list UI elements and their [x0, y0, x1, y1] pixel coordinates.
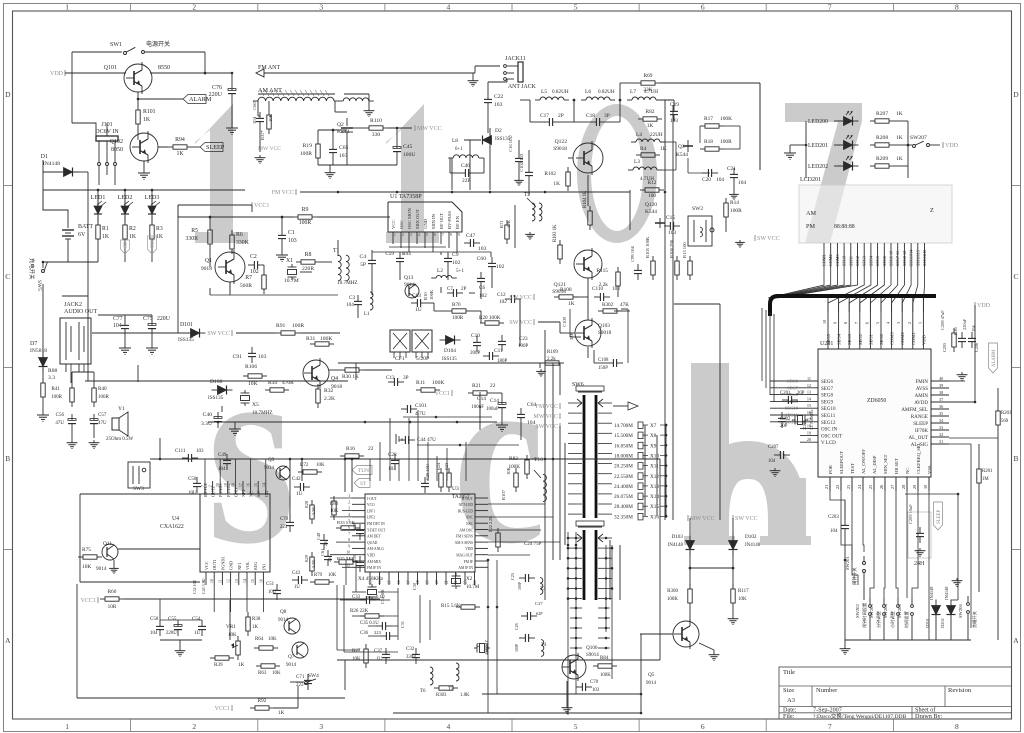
svg-text:19: 19: [807, 430, 811, 435]
svg-text:R69: R69: [644, 73, 653, 79]
svg-text:38: 38: [939, 390, 943, 395]
svg-text:R9: R9: [302, 207, 309, 213]
svg-text:1U: 1U: [415, 307, 422, 313]
svg-text:X5: X5: [252, 402, 259, 408]
svg-text:3: 3: [896, 322, 901, 324]
svg-text:18.000M: 18.000M: [614, 453, 633, 459]
svg-text:33: 33: [939, 425, 943, 430]
svg-text:1: 1: [394, 233, 396, 237]
svg-text:闹钟时间设置: 闹钟时间设置: [861, 603, 868, 628]
svg-text:D104: D104: [444, 348, 456, 354]
svg-text:SEG7: SEG7: [821, 387, 833, 392]
svg-text:L1: L1: [364, 312, 370, 317]
svg-text:SLEEP: SLEEP: [206, 144, 225, 151]
svg-text:R23: R23: [444, 462, 449, 470]
svg-text:VCC1: VCC1: [81, 598, 96, 604]
svg-text:AM OSC: AM OSC: [459, 528, 473, 532]
svg-text:R80: R80: [330, 502, 339, 507]
svg-text:C49: C49: [218, 453, 227, 458]
svg-text:SW4: SW4: [308, 673, 319, 679]
svg-text:28: 28: [901, 485, 906, 489]
svg-text:10.7M: 10.7M: [466, 585, 480, 590]
svg-text:C16 10U: C16 10U: [508, 135, 513, 152]
svg-text:3: 3: [319, 722, 323, 731]
svg-text:5+1: 5+1: [456, 269, 464, 274]
svg-text:1: 1: [348, 494, 350, 498]
svg-text:VCC1: VCC1: [215, 706, 230, 712]
svg-text:1K: 1K: [896, 156, 903, 162]
svg-text:L3: L3: [634, 159, 640, 165]
svg-text:10K: 10K: [272, 671, 281, 676]
svg-text:R28: R28: [304, 501, 309, 508]
svg-text:20: 20: [807, 437, 811, 442]
svg-text:R103 1K: R103 1K: [553, 224, 558, 242]
svg-text:88:88:88: 88:88:88: [834, 224, 855, 230]
svg-text:R94: R94: [175, 137, 185, 143]
svg-text:9: 9: [833, 322, 838, 324]
svg-text:C31: C31: [400, 621, 405, 628]
svg-text:C21: C21: [727, 166, 736, 172]
svg-text:3P: 3P: [403, 375, 409, 381]
svg-text:100K: 100K: [432, 380, 444, 386]
svg-text:1K: 1K: [896, 111, 903, 117]
svg-text:1U: 1U: [376, 657, 382, 662]
svg-text:19: 19: [224, 483, 228, 487]
svg-text:AMIN: AMIN: [915, 394, 929, 399]
svg-text:22: 22: [368, 446, 374, 452]
svg-text:22UH: 22UH: [650, 132, 663, 138]
svg-text:T1: T1: [333, 248, 340, 254]
svg-text:C10: C10: [471, 333, 480, 339]
svg-text:FM IF IN: FM IF IN: [367, 566, 381, 570]
svg-text:R102: R102: [544, 171, 556, 177]
svg-text:6: 6: [701, 722, 705, 731]
svg-text:R40: R40: [98, 386, 107, 392]
svg-text:SEG0: SEG0: [879, 333, 884, 345]
svg-text:ANT JACK: ANT JACK: [508, 84, 537, 90]
svg-text:SEG1216: SEG1216: [922, 250, 927, 266]
svg-text:充电开关: 充电开关: [28, 258, 36, 280]
svg-text:C58: C58: [150, 617, 159, 622]
svg-text:TEST: TEST: [850, 463, 855, 474]
svg-text:1M: 1M: [982, 477, 989, 482]
svg-text:MIX OUT: MIX OUT: [415, 209, 420, 229]
svg-text:OSC IN: OSC IN: [821, 428, 838, 433]
svg-text:7: 7: [201, 485, 205, 487]
svg-text:C2: C2: [250, 254, 257, 260]
svg-text:Q122: Q122: [555, 139, 568, 145]
svg-text:D: D: [1013, 90, 1019, 99]
svg-text:R41: R41: [51, 386, 60, 392]
svg-text:SW203: SW203: [869, 604, 874, 618]
svg-text:32: 32: [939, 432, 943, 437]
svg-text:TUN: TUN: [358, 468, 369, 474]
svg-text:6: 6: [701, 2, 705, 11]
svg-text:ST: ST: [360, 481, 367, 487]
svg-text:14: 14: [243, 579, 247, 583]
svg-text:V LCD: V LCD: [821, 441, 836, 446]
svg-text:SW: SW: [256, 491, 261, 497]
svg-text:C70: C70: [280, 517, 289, 522]
svg-text:24H: 24H: [914, 561, 925, 567]
svg-text:SW6: SW6: [572, 382, 584, 388]
svg-text:R110: R110: [370, 118, 382, 124]
svg-text:ZD6050: ZD6050: [867, 398, 886, 404]
svg-text:10K: 10K: [506, 466, 511, 475]
svg-text:22P: 22P: [462, 178, 470, 184]
svg-text:SEG11: SEG11: [821, 414, 836, 419]
svg-text:103: 103: [668, 230, 676, 236]
svg-text:102: 102: [499, 299, 507, 305]
svg-text:VCO: VCO: [367, 503, 375, 507]
svg-text:SEG9: SEG9: [821, 400, 833, 405]
svg-text:103: 103: [592, 688, 600, 693]
svg-text:Revision: Revision: [948, 687, 972, 694]
svg-text:ALARM: ALARM: [992, 349, 997, 367]
svg-text:1: 1: [917, 322, 922, 324]
svg-text:COM1: COM1: [911, 332, 916, 345]
svg-text:IN4148: IN4148: [929, 586, 934, 600]
svg-text:FMIN: FMIN: [915, 380, 928, 385]
svg-text:R20 100K: R20 100K: [479, 315, 501, 321]
svg-text:C: C: [1013, 272, 1018, 281]
svg-text:U1 TA7358P: U1 TA7358P: [390, 194, 422, 200]
svg-text:S9014: S9014: [586, 653, 599, 658]
svg-text:LED200: LED200: [808, 119, 828, 125]
svg-text:A3: A3: [787, 697, 795, 704]
svg-text:LPF1: LPF1: [367, 509, 375, 513]
svg-text:OSC OUT: OSC OUT: [821, 434, 842, 439]
svg-text:7: 7: [348, 532, 350, 536]
svg-text:VDD: VDD: [921, 334, 926, 345]
svg-text:9018: 9018: [201, 266, 212, 272]
svg-text:SEG5: SEG5: [826, 333, 831, 345]
svg-text:R82: R82: [646, 109, 655, 115]
svg-text:OSC MON: OSC MON: [407, 208, 412, 229]
svg-text:23: 23: [846, 485, 851, 489]
svg-text:C109: C109: [562, 316, 567, 327]
svg-text:C4: C4: [359, 254, 366, 260]
svg-text:VCC1: VCC1: [254, 203, 269, 209]
svg-text:8: 8: [955, 2, 959, 11]
svg-text:BUS-LED: BUS-LED: [458, 509, 474, 513]
svg-text:K544: K544: [645, 209, 657, 215]
svg-text:T6: T6: [420, 689, 426, 694]
svg-text:T2: T2: [524, 192, 530, 198]
svg-text:D102: D102: [745, 534, 757, 540]
svg-text:IN4148: IN4148: [43, 161, 60, 167]
svg-text:IN1: IN1: [261, 563, 266, 570]
svg-text:103: 103: [258, 354, 267, 360]
svg-text:10: 10: [346, 551, 350, 555]
svg-text:BY-PASS: BY-PASS: [447, 211, 452, 229]
svg-text:100K: 100K: [600, 673, 611, 678]
svg-text:AM-ANLG: AM-ANLG: [367, 547, 384, 551]
svg-text:9014: 9014: [286, 663, 297, 668]
svg-text:RF OUT: RF OUT: [439, 213, 444, 229]
svg-text:104: 104: [738, 180, 746, 186]
svg-text:LPF2: LPF2: [367, 516, 375, 520]
svg-text:5/20P: 5/20P: [416, 356, 429, 362]
svg-text:C60: C60: [477, 256, 487, 262]
svg-text:1.8K: 1.8K: [460, 693, 470, 698]
svg-text:10K: 10K: [738, 597, 747, 602]
svg-text:K544: K544: [676, 152, 688, 158]
svg-text:103: 103: [288, 238, 297, 244]
svg-text:2.2K: 2.2K: [324, 396, 335, 402]
svg-text:C209 10uF: C209 10uF: [908, 504, 913, 524]
svg-text:10K: 10K: [82, 564, 91, 570]
svg-text:C50: C50: [188, 477, 197, 482]
svg-text:SW2: SW2: [692, 206, 703, 212]
svg-text:8: 8: [843, 322, 848, 324]
svg-text:R8: R8: [305, 252, 312, 258]
svg-text:220R: 220R: [302, 266, 314, 272]
svg-text:C15: C15: [666, 215, 675, 221]
svg-text:220uF: 220uF: [962, 318, 967, 330]
svg-text:SW202: SW202: [855, 604, 860, 618]
svg-text:R13 100: R13 100: [682, 242, 687, 258]
svg-text:R5: R5: [191, 228, 198, 234]
svg-text:R18: R18: [704, 139, 713, 145]
svg-text:8: 8: [348, 538, 350, 542]
svg-text:ISS135: ISS135: [442, 357, 457, 362]
svg-text:COM3: COM3: [835, 254, 840, 266]
svg-text:100R: 100R: [300, 151, 312, 157]
svg-text:7: 7: [442, 233, 444, 237]
svg-text:SW VCC: SW VCC: [757, 236, 780, 242]
svg-text:100K: 100K: [667, 597, 679, 602]
svg-text:32.350M: 32.350M: [614, 514, 633, 520]
svg-text:COM3: COM3: [890, 332, 895, 345]
svg-text:分钟调整: 分钟调整: [875, 610, 882, 628]
svg-text:X1: X1: [286, 258, 293, 264]
svg-text:VOL: VOL: [245, 561, 250, 570]
svg-text:1K: 1K: [176, 151, 184, 157]
svg-text:AMFM_SEL: AMFM_SEL: [901, 408, 928, 413]
svg-text:25Ohm 0.5W: 25Ohm 0.5W: [106, 437, 134, 442]
svg-text:C24 75P: C24 75P: [524, 542, 542, 547]
svg-text:RF EN: RF EN: [455, 215, 460, 229]
svg-text:IN4148: IN4148: [944, 586, 949, 600]
svg-text:MIN_SET: MIN_SET: [883, 454, 888, 474]
svg-text:C44 47U: C44 47U: [417, 437, 436, 443]
svg-text:SEG8: SEG8: [821, 394, 833, 399]
svg-text:R107: R107: [501, 489, 506, 500]
svg-text:2P: 2P: [558, 113, 564, 119]
svg-text:1: 1: [65, 2, 69, 11]
svg-text:11: 11: [807, 376, 811, 381]
svg-text:103: 103: [612, 286, 620, 292]
svg-text:Q106: Q106: [586, 645, 598, 651]
svg-text:R3: R3: [156, 226, 163, 232]
svg-text:X2: X2: [466, 576, 473, 582]
svg-text:C91: C91: [233, 354, 243, 360]
svg-text:SEG6: SEG6: [882, 256, 887, 266]
svg-text:C45 3.3U: C45 3.3U: [201, 578, 206, 594]
svg-text:L8: L8: [452, 138, 458, 144]
svg-text:ST: ST: [123, 241, 129, 248]
svg-text:Q2: Q2: [337, 122, 344, 128]
svg-text:R-OUT: R-OUT: [462, 497, 474, 501]
svg-text:R108: R108: [560, 287, 572, 293]
svg-text:IF70K: IF70K: [915, 429, 928, 434]
svg-text:104: 104: [113, 323, 122, 329]
svg-text:C64: C64: [527, 402, 537, 408]
svg-text:AM IF IN: AM IF IN: [458, 566, 473, 570]
svg-text:SW3: SW3: [133, 486, 144, 492]
svg-text:R109: R109: [547, 350, 558, 355]
svg-text:T-DET OUT: T-DET OUT: [367, 528, 386, 532]
svg-text:C19: C19: [670, 102, 679, 108]
svg-text:C78: C78: [590, 680, 599, 685]
svg-text:D201: D201: [925, 618, 930, 628]
svg-text:15: 15: [388, 580, 392, 584]
svg-text:1K: 1K: [143, 117, 151, 123]
svg-text:100P: 100P: [514, 643, 519, 652]
svg-text:R79: R79: [314, 573, 323, 578]
svg-text:31: 31: [939, 439, 943, 444]
svg-text:27: 27: [890, 485, 895, 489]
svg-text:R2: R2: [129, 226, 136, 232]
svg-text:SEG0: SEG0: [842, 256, 847, 266]
svg-text:Q9: Q9: [268, 457, 275, 463]
svg-text:SEG8 12: SEG8 12: [902, 251, 907, 266]
svg-text:闹钟开关: 闹钟开关: [851, 567, 858, 585]
svg-text:SW205: SW205: [897, 604, 902, 618]
svg-text:C45: C45: [403, 144, 413, 150]
svg-text:R11: R11: [416, 380, 425, 386]
svg-text:1K: 1K: [660, 146, 667, 152]
svg-text:4.7U: 4.7U: [415, 411, 426, 417]
svg-text:SW201: SW201: [845, 556, 850, 570]
svg-text:26: 26: [879, 485, 884, 489]
svg-text:D2: D2: [495, 128, 502, 134]
svg-text:0.82UH: 0.82UH: [598, 89, 615, 95]
svg-text:R10: R10: [423, 292, 428, 300]
svg-text:R21: R21: [472, 383, 481, 389]
svg-text:T10: T10: [534, 457, 543, 463]
svg-text:R84: R84: [600, 656, 609, 661]
svg-text:R38: R38: [252, 617, 261, 622]
svg-text:B: B: [1013, 454, 1018, 463]
svg-text:D101: D101: [180, 322, 193, 328]
svg-text:C12: C12: [497, 292, 506, 298]
svg-text:CF1: CF1: [395, 356, 405, 362]
svg-text:C71: C71: [296, 675, 305, 680]
svg-text:R72: R72: [300, 463, 309, 468]
svg-text:1U: 1U: [194, 631, 201, 636]
svg-text:D1: D1: [41, 154, 48, 160]
svg-text:104: 104: [716, 177, 724, 183]
svg-text:R208: R208: [876, 135, 888, 141]
svg-text:X14: X14: [650, 494, 659, 500]
svg-text:C30: C30: [412, 583, 417, 590]
svg-text:C46: C46: [461, 163, 470, 169]
svg-text:R29: R29: [304, 555, 309, 562]
svg-text:MW VCC: MW VCC: [690, 516, 715, 522]
svg-text:JACK11: JACK11: [505, 56, 526, 62]
svg-text:20: 20: [435, 580, 439, 584]
svg-text:SW VCC: SW VCC: [509, 295, 532, 301]
svg-text:X13: X13: [650, 484, 659, 490]
svg-text:Y1: Y1: [118, 406, 125, 412]
svg-text:C108: C108: [598, 358, 609, 363]
svg-text:R101: R101: [143, 109, 156, 115]
svg-text:AM-MIX: AM-MIX: [367, 560, 381, 564]
svg-text:104: 104: [252, 116, 257, 124]
svg-text:A: A: [5, 636, 11, 645]
svg-text:R203: R203: [1001, 411, 1012, 416]
svg-text:ISS135: ISS135: [208, 395, 224, 401]
svg-text:10K: 10K: [352, 657, 361, 662]
svg-text:C75: C75: [143, 316, 153, 322]
svg-text:47U: 47U: [55, 421, 64, 426]
svg-text:5P: 5P: [360, 262, 366, 268]
svg-text:L6: L6: [585, 89, 591, 95]
svg-text:SEG4: SEG4: [868, 255, 873, 266]
svg-text:330R: 330R: [185, 236, 198, 242]
svg-text:22.550M: 22.550M: [614, 474, 633, 480]
svg-text:3: 3: [410, 233, 412, 237]
svg-text:150P: 150P: [598, 366, 608, 371]
svg-text:R32: R32: [324, 388, 334, 394]
svg-text:NSC: NSC: [466, 522, 474, 526]
svg-text:R12: R12: [648, 180, 657, 186]
svg-text:SLEEP: SLEEP: [937, 510, 942, 524]
svg-text:103: 103: [196, 449, 204, 454]
svg-text:R92: R92: [258, 698, 267, 704]
svg-text:100R: 100R: [452, 315, 464, 321]
svg-text:BATT: BATT: [78, 224, 93, 230]
svg-text:7-Sep-2007: 7-Sep-2007: [813, 706, 842, 713]
svg-text:C201: C201: [780, 391, 791, 396]
svg-text:10.7MHZ: 10.7MHZ: [252, 410, 273, 416]
svg-text:560R: 560R: [240, 283, 252, 289]
svg-text:1: 1: [65, 722, 69, 731]
svg-text:FM VCC: FM VCC: [272, 190, 294, 196]
svg-text:16.850M: 16.850M: [614, 443, 633, 449]
svg-text:SEG1: SEG1: [848, 256, 853, 266]
svg-text:10K: 10K: [328, 573, 337, 578]
svg-text:1K: 1K: [129, 234, 137, 240]
svg-text:R1: R1: [102, 226, 109, 232]
svg-text:C99 104: C99 104: [630, 246, 635, 262]
svg-text:NF1: NF1: [237, 563, 242, 570]
svg-text:C25: C25: [510, 573, 515, 580]
svg-text:1K: 1K: [553, 181, 560, 187]
svg-text:C26: C26: [514, 623, 519, 630]
svg-text:C205: C205: [942, 343, 947, 352]
svg-text:Title: Title: [783, 669, 795, 676]
svg-text:R22 2.2K: R22 2.2K: [488, 516, 493, 532]
svg-text:17: 17: [407, 580, 411, 584]
svg-text:Q3: Q3: [678, 144, 685, 150]
svg-text:Z: Z: [930, 207, 934, 214]
svg-text:电源开关: 电源开关: [146, 40, 170, 48]
svg-text:2: 2: [348, 500, 350, 504]
svg-text:SEG2: SEG2: [855, 256, 860, 266]
svg-text:103: 103: [339, 153, 348, 159]
svg-text:R16: R16: [346, 446, 355, 452]
svg-text:100R: 100R: [299, 220, 312, 226]
svg-text:R106: R106: [245, 364, 257, 370]
svg-text:VCC1: VCC1: [435, 391, 450, 397]
svg-text:D7: D7: [30, 341, 37, 347]
svg-text:100: 100: [648, 193, 656, 199]
svg-text:4: 4: [447, 2, 451, 11]
svg-text:5: 5: [574, 722, 578, 731]
